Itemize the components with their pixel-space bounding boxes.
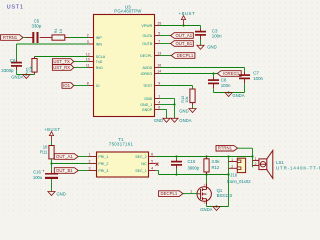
svg-text:8: 8 [87,81,89,85]
svg-text:10k: 10k [28,66,33,72]
svg-text:UST1: UST1 [7,5,24,11]
svg-text:TEST: TEST [143,84,153,88]
svg-text:INP: INP [96,36,103,40]
svg-text:1: 1 [158,94,160,98]
svg-text:AVDD: AVDD [142,66,152,70]
svg-text:OUTA: OUTA [142,34,152,38]
svg-text:12: 12 [86,52,90,56]
svg-text:R11: R11 [40,150,48,155]
svg-text:100u: 100u [33,175,43,180]
svg-text:13: 13 [157,51,161,55]
svg-text:J16: J16 [230,172,237,177]
svg-text:100n: 100n [221,83,231,88]
svg-text:3: 3 [89,167,91,171]
svg-text:2: 2 [255,162,257,166]
svg-text:INN: INN [96,42,103,46]
svg-text:C8: C8 [221,77,227,82]
svg-text:GND: GND [207,45,216,50]
svg-text:GNDA: GNDA [11,75,23,80]
svg-text:3: 3 [87,40,89,44]
svg-text:2: 2 [87,33,89,37]
svg-text:R12: R12 [212,165,220,170]
svg-text:GND: GND [154,118,163,123]
svg-text:4: 4 [158,100,160,104]
svg-text:5: 5 [151,160,153,164]
svg-text:750317161: 750317161 [109,141,134,146]
svg-text:1: 1 [190,189,192,193]
svg-text:3: 3 [204,201,206,205]
svg-text:RTRN1: RTRN1 [218,146,233,151]
svg-text:7: 7 [158,39,160,43]
svg-text:15: 15 [157,21,161,25]
svg-text:C10: C10 [188,159,196,164]
svg-text:PGA460TPW: PGA460TPW [114,8,142,13]
svg-text:10: 10 [86,57,90,61]
svg-text:2: 2 [204,184,206,188]
svg-text:4: 4 [151,167,153,171]
svg-text:OUT_A1: OUT_A1 [56,154,73,159]
svg-text:6: 6 [151,153,153,157]
svg-text:6: 6 [158,105,160,109]
svg-text:14: 14 [157,69,161,73]
svg-text:330p: 330p [32,23,42,28]
svg-text:3.9k: 3.9k [212,159,221,164]
svg-text:2: 2 [89,160,91,164]
svg-text:C6: C6 [10,58,16,63]
svg-text:+BUST: +BUST [179,11,195,16]
svg-text:VPWR: VPWR [141,24,152,28]
svg-text:OUT_B1: OUT_B1 [56,168,73,173]
svg-text:IOREG1: IOREG1 [223,71,240,76]
svg-text:PRI_2: PRI_2 [98,162,108,166]
svg-text:IOREG: IOREG [141,72,153,76]
svg-text:OUT_B1: OUT_B1 [175,41,192,46]
svg-text:DECPL1: DECPL1 [177,53,194,58]
svg-text:GNDA: GNDA [232,93,244,98]
svg-text:3900p: 3900p [188,166,200,171]
svg-text:OUT_A1: OUT_A1 [175,33,192,38]
svg-text:3300p: 3300p [1,68,14,73]
svg-text:GNDA: GNDA [200,207,212,212]
svg-text:PRI_3: PRI_3 [98,169,108,173]
svg-text:RxD: RxD [96,66,103,70]
svg-text:GND: GND [57,191,66,196]
svg-text:SCLA: SCLA [96,55,106,59]
svg-text:GNDP: GNDP [142,108,153,112]
svg-text:1: 1 [231,158,233,162]
svg-text:1: 1 [89,153,91,157]
svg-text:UST_RX: UST_RX [53,65,70,70]
svg-text:BSS123: BSS123 [217,193,233,198]
svg-text:GND: GND [179,109,188,114]
svg-text:GND_1: GND_1 [140,103,152,107]
svg-text:GND: GND [144,97,152,101]
svg-text:5: 5 [158,31,160,35]
svg-text:SEC_2: SEC_2 [135,155,146,159]
svg-text:11: 11 [86,63,90,67]
svg-text:GNDA: GNDA [179,118,191,123]
svg-text:+BUST: +BUST [44,127,60,132]
svg-text:PRI_1: PRI_1 [98,155,108,159]
svg-text:DECPL: DECPL [140,54,152,58]
svg-text:RTRN1: RTRN1 [3,35,18,40]
svg-text:IO1: IO1 [63,83,71,88]
svg-text:C7: C7 [253,71,259,76]
svg-text:Conn_01x02: Conn_01x02 [227,179,251,184]
svg-text:UTR-1440K-TT-R: UTR-1440K-TT-R [276,166,320,171]
svg-text:C16: C16 [33,169,41,174]
svg-text:2: 2 [231,165,233,169]
svg-text:OUTB: OUTB [142,42,153,46]
svg-text:LS1: LS1 [276,160,284,165]
svg-text:TxD: TxD [96,60,103,64]
svg-text:1: 1 [255,157,257,161]
svg-text:10k: 10k [184,96,189,102]
svg-text:100n: 100n [212,33,222,38]
svg-text:UST_TX: UST_TX [53,59,70,64]
svg-text:SEC_1: SEC_1 [135,169,146,173]
svg-text:100n: 100n [253,76,263,81]
svg-text:9: 9 [158,81,160,85]
svg-text:IO: IO [96,84,100,88]
svg-text:NC: NC [141,162,147,166]
svg-text:DECPL1: DECPL1 [161,191,178,196]
svg-text:16: 16 [157,63,161,67]
